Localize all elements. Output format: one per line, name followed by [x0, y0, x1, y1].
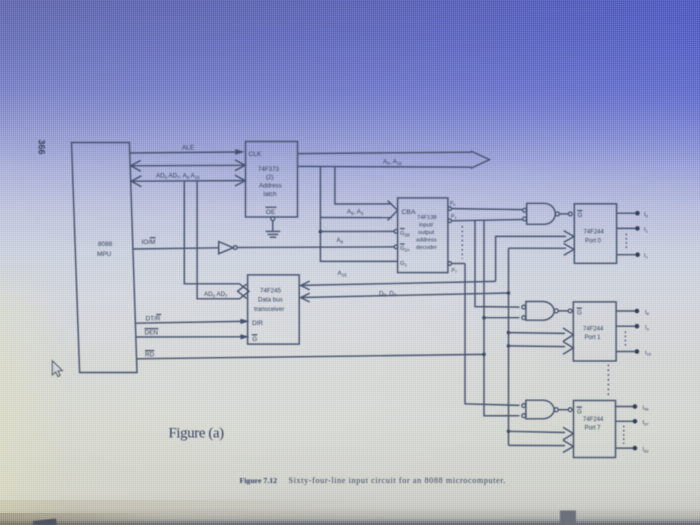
svg-text:74F245: 74F245 — [260, 288, 282, 295]
svg-text:RD: RD — [145, 352, 155, 359]
wire riser2 to port 1 lower — [507, 344, 511, 348]
svg-text:A5, A3: A5, A3 — [347, 209, 364, 216]
svg-text:MPU: MPU — [97, 251, 112, 258]
svg-text:A0, A15: A0, A15 — [383, 159, 402, 166]
port 7 outputs — [616, 406, 633, 408]
wire inverter out to G2A — [237, 246, 394, 249]
svg-text:G2A: G2A — [400, 246, 410, 253]
svg-text:74F373: 74F373 — [258, 166, 280, 173]
wire P7 drop to NAND3 — [465, 264, 519, 406]
dotted outputs omitted — [461, 226, 463, 259]
svg-text:output: output — [418, 230, 435, 236]
svg-text:Sixty-four-line input circuit: Sixty-four-line input circuit for an 808… — [289, 476, 506, 485]
wire DEN to G — [136, 336, 241, 338]
bus A0-A15 from latch — [298, 152, 472, 153]
svg-text:74F244: 74F244 — [584, 230, 605, 236]
svg-text:G: G — [577, 310, 582, 317]
wire AD drop 2 to transceiver — [197, 181, 240, 299]
OE bubble — [271, 217, 275, 221]
svg-text:I0: I0 — [644, 212, 649, 218]
svg-text:G: G — [577, 409, 582, 416]
svg-text:74F244: 74F244 — [583, 417, 604, 423]
wire address tap vertical x335 to CBA upper line — [335, 166, 392, 204]
wire ALE — [130, 152, 236, 153]
dotted between port1 and port7 — [607, 365, 609, 399]
svg-text:CLK: CLK — [249, 151, 262, 158]
svg-text:input/: input/ — [419, 223, 434, 229]
wire address tap vertical x320 — [320, 166, 397, 261]
svg-text:(2): (2) — [266, 174, 274, 181]
wire IO/M — [133, 248, 219, 249]
wire riser2 to port 1 upper — [507, 331, 511, 335]
data bus transceiver U3 74F245 — [248, 275, 300, 344]
svg-text:decoder: decoder — [416, 245, 437, 251]
wire AD drop 1 to transceiver — [184, 181, 240, 284]
inverter U8 — [219, 242, 234, 254]
svg-text:P1: P1 — [451, 214, 456, 220]
svg-text:DIR: DIR — [252, 320, 263, 327]
svg-text:I15: I15 — [645, 350, 652, 356]
bus D0-D7 line 1 — [301, 281, 310, 290]
svg-text:D0, D7: D0, D7 — [379, 290, 397, 297]
decoder output P1 — [448, 219, 452, 223]
port 0 outputs — [617, 212, 636, 214]
wire riser2 to port 7 lower — [509, 444, 566, 446]
wire DT/R to DIR — [135, 321, 241, 323]
svg-text:Figure 7.12: Figure 7.12 — [240, 476, 278, 485]
svg-text:IO/M: IO/M — [142, 239, 156, 246]
decoder output P7 — [448, 262, 452, 266]
svg-text:A15: A15 — [338, 270, 348, 277]
wire RD — [137, 354, 485, 358]
svg-text:I56: I56 — [643, 405, 650, 411]
svg-text:G: G — [578, 212, 583, 219]
svg-text:74F244: 74F244 — [583, 327, 604, 333]
svg-text:I9: I9 — [645, 325, 650, 331]
wire riser2 to port 7 upper — [507, 430, 511, 434]
svg-text:G: G — [252, 336, 257, 343]
svg-text:366: 366 — [37, 139, 47, 154]
wire to G2B — [320, 230, 394, 232]
svg-text:Port 7: Port 7 — [585, 425, 602, 431]
svg-text:G1: G1 — [400, 261, 408, 268]
bus AD0-AD7 A8-A15 line 1 — [131, 164, 245, 167]
nand gate U11 port7 — [526, 400, 554, 419]
svg-text:G2B: G2B — [400, 231, 410, 238]
decoder output P0 — [448, 207, 452, 211]
svg-text:DEN: DEN — [145, 330, 159, 337]
port 1 outputs — [616, 310, 635, 312]
port 1 buffer U6 74F244 — [573, 302, 616, 361]
svg-text:Figure (a): Figure (a) — [169, 426, 225, 442]
svg-text:CBA: CBA — [402, 209, 416, 216]
svg-text:A6: A6 — [337, 237, 344, 244]
junction at G2B tap — [319, 230, 323, 234]
port 7 buffer U7 74F244 — [574, 401, 616, 458]
svg-text:I7: I7 — [644, 254, 649, 260]
wire RD strobe vertical — [484, 220, 519, 416]
wire riser2 to port 0 — [509, 247, 567, 249]
ground — [272, 221, 274, 231]
bus AD0-AD7 A8-A15 line 2 — [131, 180, 245, 183]
desk object left — [33, 519, 57, 525]
svg-text:74F138: 74F138 — [417, 215, 437, 221]
bus arrowhead CBA — [388, 201, 398, 221]
svg-text:8088: 8088 — [98, 241, 113, 248]
svg-text:Port 1: Port 1 — [585, 335, 602, 341]
wire D riser 1 to port 0 — [496, 236, 566, 281]
mouse cursor — [52, 361, 62, 377]
address latch U2 74F373 — [246, 142, 298, 218]
svg-text:AD0 AD7: AD0 AD7 — [204, 291, 228, 298]
svg-text:P0: P0 — [450, 201, 455, 207]
svg-text:I1: I1 — [644, 227, 649, 233]
svg-text:Port 0: Port 0 — [585, 239, 602, 245]
wire tap to CBA lower line — [320, 217, 391, 219]
svg-text:Data bus: Data bus — [258, 297, 283, 304]
bus arrowheads at transceiver AD port — [240, 284, 249, 298]
nand gate U10 port1 — [526, 302, 554, 321]
svg-text:DT/R: DT/R — [146, 316, 161, 323]
junction RD to NAND2 — [482, 316, 486, 320]
svg-text:address: address — [416, 238, 437, 244]
bus D0-D7 line 2 — [301, 293, 310, 302]
address decoder U4 74F138 — [398, 198, 448, 273]
wire P1 drop to NAND2 — [475, 221, 519, 308]
svg-text:I8: I8 — [645, 310, 650, 316]
svg-text:I57: I57 — [643, 420, 650, 426]
svg-text:transceiver: transceiver — [254, 306, 284, 313]
svg-text:I63: I63 — [643, 447, 650, 453]
svg-text:latch: latch — [264, 191, 278, 198]
port 0 buffer U5 74F244 — [574, 204, 616, 263]
desk object right — [560, 511, 576, 525]
8088 MPU U1 — [72, 143, 138, 373]
svg-text:P7: P7 — [452, 268, 457, 274]
svg-text:OE: OE — [266, 209, 276, 216]
junction RD joins — [482, 353, 486, 357]
svg-text:Address: Address — [259, 183, 282, 190]
wire D riser 2 — [508, 248, 510, 445]
svg-text:ALE: ALE — [182, 145, 194, 152]
nand gate U9 port0 — [527, 203, 556, 224]
svg-text:AD0 AD7, A8 A15: AD0 AD7, A8 A15 — [156, 173, 200, 180]
